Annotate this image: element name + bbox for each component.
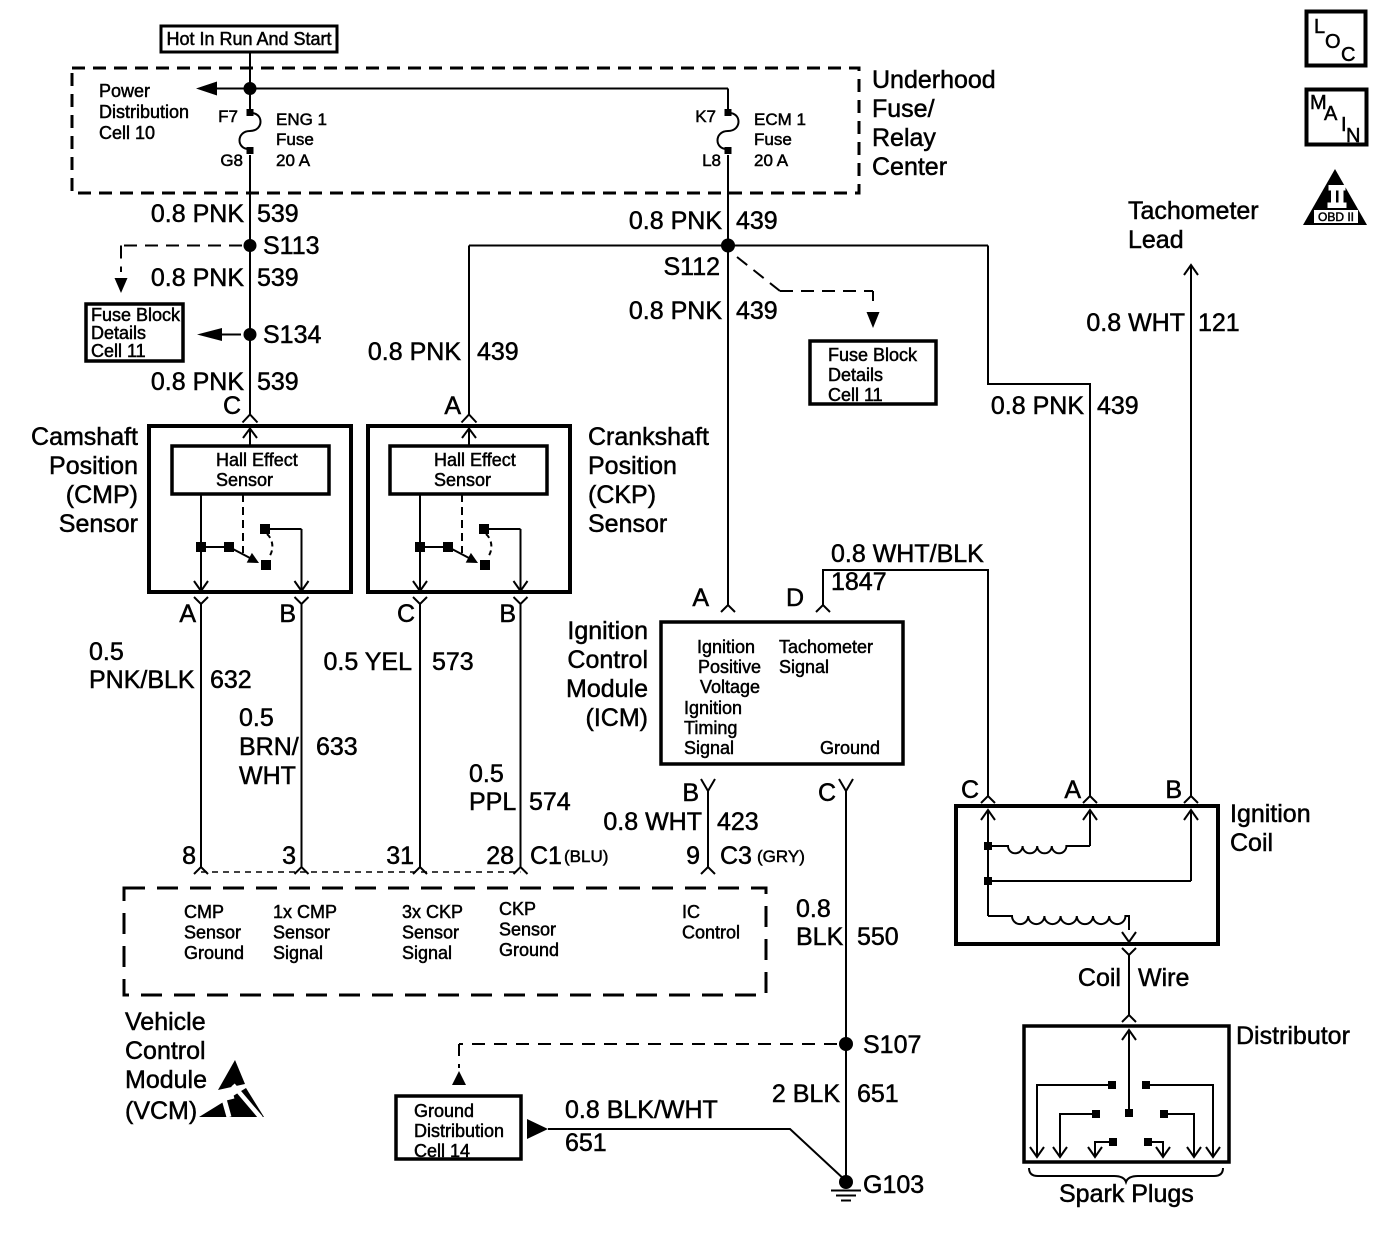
wire: main feed horizontal with left arrow xyxy=(196,82,728,96)
node D (ICM terminal D) xyxy=(786,584,830,612)
junction dot at hot feed xyxy=(244,82,257,95)
svg-text:Cell 10: Cell 10 xyxy=(99,123,155,143)
wire 0.8 PNK 439 (CKP A up to S112) xyxy=(468,246,470,415)
label 0.8 PNK 539 (above S113) xyxy=(151,200,299,228)
svg-text:423: 423 xyxy=(717,808,759,836)
svg-text:B: B xyxy=(499,600,516,628)
node B (ICM terminal B) xyxy=(682,779,715,807)
node B (ignition coil terminal B) xyxy=(1165,776,1198,804)
svg-text:573: 573 xyxy=(432,648,474,676)
label Power Distribution Cell 10 xyxy=(99,81,189,143)
svg-text:632: 632 xyxy=(210,666,252,694)
svg-text:651: 651 xyxy=(565,1129,607,1157)
connector C1 (BLU) xyxy=(530,842,608,870)
svg-text:N: N xyxy=(1346,125,1360,147)
pin 9 xyxy=(686,842,715,874)
node: coil wire output terminal xyxy=(1122,948,1136,955)
pin 8 xyxy=(182,842,208,874)
svg-text:121: 121 xyxy=(1198,309,1240,337)
symbol LOC xyxy=(1307,12,1366,67)
svg-text:Signal: Signal xyxy=(402,943,452,963)
svg-text:(ICM): (ICM) xyxy=(586,704,648,732)
svg-text:Sensor: Sensor xyxy=(184,923,241,943)
svg-text:550: 550 xyxy=(857,923,899,951)
svg-text:S107: S107 xyxy=(863,1031,921,1059)
fuse ENG 1 20 A (F7/G8) xyxy=(218,107,327,170)
svg-text:C: C xyxy=(818,779,836,807)
dashed arrow from S113 to Fuse Block Details xyxy=(115,246,243,294)
svg-text:Sensor: Sensor xyxy=(59,510,138,538)
svg-text:Ignition: Ignition xyxy=(1230,800,1311,828)
svg-text:IC: IC xyxy=(682,902,700,922)
svg-text:Positive: Positive xyxy=(698,657,761,677)
node S107 xyxy=(839,1031,921,1059)
label 2 BLK 651 xyxy=(772,1080,899,1108)
svg-text:C3: C3 xyxy=(720,842,752,870)
svg-text:Sensor: Sensor xyxy=(434,470,491,490)
reference box: Hot In Run And Start xyxy=(161,26,337,52)
svg-text:Fuse Block: Fuse Block xyxy=(91,305,181,325)
svg-text:Ignition: Ignition xyxy=(697,637,755,657)
svg-text:0.8 PNK: 0.8 PNK xyxy=(629,207,722,235)
label 0.8 WHT 121 xyxy=(1086,309,1239,337)
wire 0.8 WHT 121 (tachometer lead to coil B) xyxy=(1184,265,1198,796)
svg-text:Signal: Signal xyxy=(779,657,829,677)
svg-text:CKP: CKP xyxy=(499,899,536,919)
pin 3 xyxy=(282,842,308,874)
svg-text:CMP: CMP xyxy=(184,902,224,922)
node C (CMP connector) xyxy=(223,392,258,423)
rotor contacts to spark plug outputs xyxy=(1108,1081,1116,1089)
pin 31 xyxy=(386,842,427,874)
label 0.5 PPL 574 xyxy=(469,760,571,816)
symbol MAIN xyxy=(1307,90,1367,148)
svg-text:0.8 PNK: 0.8 PNK xyxy=(368,338,461,366)
svg-text:Underhood: Underhood xyxy=(872,66,996,94)
svg-text:Sensor: Sensor xyxy=(216,470,273,490)
svg-text:G8: G8 xyxy=(220,151,243,170)
node A (CKP connector) xyxy=(444,392,476,423)
label Vehicle Control Module (VCM) xyxy=(125,1008,207,1125)
svg-text:0.5: 0.5 xyxy=(89,638,124,666)
svg-text:Ignition: Ignition xyxy=(567,617,648,645)
label 0.8 PNK 439 (above S112) xyxy=(629,207,778,235)
svg-text:C: C xyxy=(397,600,415,628)
svg-text:BRN/: BRN/ xyxy=(239,733,299,761)
svg-text:539: 539 xyxy=(257,368,299,396)
svg-text:Hall Effect: Hall Effect xyxy=(434,450,516,470)
wire 0.5 BRN/WHT 633 (CMP B to VCM pin 3) xyxy=(301,604,303,867)
svg-text:Control: Control xyxy=(567,646,648,674)
svg-text:Distribution: Distribution xyxy=(414,1121,504,1141)
svg-text:Vehicle: Vehicle xyxy=(125,1008,206,1036)
camshaft position sensor CMP box xyxy=(149,426,351,592)
fuse ECM 1 20 A (K7/L8) xyxy=(695,107,806,170)
connector C3 (GRY) xyxy=(720,842,805,870)
svg-text:0.8 BLK/WHT: 0.8 BLK/WHT xyxy=(565,1096,718,1124)
svg-text:A: A xyxy=(179,600,196,628)
svg-text:Spark Plugs: Spark Plugs xyxy=(1059,1180,1194,1208)
svg-text:Timing: Timing xyxy=(684,718,737,738)
svg-text:Power: Power xyxy=(99,81,150,101)
svg-text:574: 574 xyxy=(529,788,571,816)
underhood fuse/relay center dashed box xyxy=(72,68,859,193)
wire 0.8 PNK 439 (S112 to ignition coil A) xyxy=(988,246,1090,797)
label 0.8 PNK 439 (to coil) xyxy=(991,392,1139,420)
svg-text:1x CMP: 1x CMP xyxy=(273,902,337,922)
label Ignition Control Module (ICM) xyxy=(566,617,648,732)
svg-text:Module: Module xyxy=(125,1066,207,1094)
svg-text:Ground: Ground xyxy=(820,738,880,758)
svg-text:Fuse: Fuse xyxy=(276,130,314,149)
svg-text:3: 3 xyxy=(282,842,296,870)
svg-text:Voltage: Voltage xyxy=(700,677,760,697)
dashed connector line C1 xyxy=(201,871,521,873)
wire 0.8 WHT/BLK 1847 (ICM D to ignition coil C) xyxy=(823,570,988,796)
svg-text:D: D xyxy=(786,584,804,612)
label CMP Sensor Ground (VCM pin 8) xyxy=(184,902,244,963)
svg-text:C1: C1 xyxy=(530,842,562,870)
pin 28 xyxy=(486,842,527,874)
svg-text:Ground: Ground xyxy=(184,943,244,963)
wire 0.8 PNK 439 from L8 fuse down through S112 to ICM A xyxy=(727,155,729,605)
node C (ICM terminal C) xyxy=(818,779,853,807)
svg-text:Ground: Ground xyxy=(414,1101,474,1121)
svg-text:0.8 WHT: 0.8 WHT xyxy=(603,808,702,836)
svg-text:Cell 14: Cell 14 xyxy=(414,1141,470,1161)
label 0.8 WHT 423 xyxy=(603,808,758,836)
svg-text:Hall Effect: Hall Effect xyxy=(216,450,298,470)
label IC Control (VCM pin 9) xyxy=(682,902,740,943)
svg-text:B: B xyxy=(1165,776,1182,804)
reference box: Fuse Block Details Cell 11 (right) xyxy=(810,341,936,405)
svg-text:439: 439 xyxy=(477,338,519,366)
node S113 xyxy=(244,232,320,260)
svg-text:Cell 11: Cell 11 xyxy=(828,385,883,405)
svg-text:Ground: Ground xyxy=(499,940,559,960)
svg-text:A: A xyxy=(1064,776,1081,804)
svg-text:PNK/BLK: PNK/BLK xyxy=(89,666,195,694)
svg-text:Lead: Lead xyxy=(1128,226,1184,254)
svg-text:S112: S112 xyxy=(663,253,720,281)
wire 0.5 YEL 573 (CKP C to VCM pin 31) xyxy=(419,604,421,867)
svg-text:Control: Control xyxy=(125,1037,206,1065)
svg-text:C: C xyxy=(223,392,241,420)
svg-text:28: 28 xyxy=(486,842,514,870)
ESD warning symbol xyxy=(199,1060,264,1118)
label Underhood Fuse/Relay Center xyxy=(872,66,996,181)
svg-text:G103: G103 xyxy=(863,1171,924,1199)
svg-text:2 BLK: 2 BLK xyxy=(772,1080,840,1108)
svg-text:O: O xyxy=(1325,31,1341,53)
svg-text:0.8 PNK: 0.8 PNK xyxy=(151,264,244,292)
svg-text:Crankshaft: Crankshaft xyxy=(588,423,709,451)
svg-text:(CMP): (CMP) xyxy=(66,481,138,509)
svg-text:0.8: 0.8 xyxy=(796,895,831,923)
svg-text:8: 8 xyxy=(182,842,196,870)
svg-text:C: C xyxy=(961,776,979,804)
svg-text:S134: S134 xyxy=(263,321,321,349)
svg-text:(BLU): (BLU) xyxy=(564,847,608,866)
crankshaft position sensor CKP box xyxy=(368,426,570,592)
svg-text:633: 633 xyxy=(316,733,358,761)
svg-text:Center: Center xyxy=(872,153,947,181)
svg-text:Fuse: Fuse xyxy=(754,130,792,149)
svg-text:Sensor: Sensor xyxy=(499,920,556,940)
spark plugs brace xyxy=(1029,1168,1223,1182)
label Coil Wire xyxy=(1078,964,1189,992)
node A (CMP pin A) xyxy=(179,597,208,628)
svg-text:20 A: 20 A xyxy=(276,151,311,170)
svg-text:ECM 1: ECM 1 xyxy=(754,110,806,129)
svg-text:0.5: 0.5 xyxy=(239,704,274,732)
ignition coil box xyxy=(956,806,1218,944)
svg-text:Cell 11: Cell 11 xyxy=(91,341,146,361)
svg-text:539: 539 xyxy=(257,200,299,228)
primary winding xyxy=(988,846,1090,853)
dashed arrow from S112 to Fuse Block Details Cell 11 xyxy=(737,257,880,328)
svg-text:Sensor: Sensor xyxy=(273,923,330,943)
svg-text:0.8 PNK: 0.8 PNK xyxy=(629,297,722,325)
svg-text:439: 439 xyxy=(736,297,778,325)
wire 0.5 PPL 574 (CKP B to VCM pin 28) xyxy=(520,604,522,867)
svg-text:Details: Details xyxy=(91,323,146,343)
label 0.5 BRN/WHT 633 xyxy=(239,704,358,790)
svg-text:Signal: Signal xyxy=(684,738,734,758)
label 0.8 PNK 439 (below S112) xyxy=(629,297,778,325)
svg-text:0.5 YEL: 0.5 YEL xyxy=(323,648,412,676)
svg-text:0.8 WHT: 0.8 WHT xyxy=(1086,309,1185,337)
svg-text:B: B xyxy=(279,600,296,628)
label 0.8 BLK/WHT 651 xyxy=(565,1096,718,1157)
svg-text:Coil: Coil xyxy=(1230,829,1273,857)
svg-text:Wire: Wire xyxy=(1138,964,1189,992)
svg-text:PPL: PPL xyxy=(469,788,516,816)
wire: coil wire to distributor xyxy=(1128,955,1130,1015)
svg-text:1847: 1847 xyxy=(831,568,887,596)
svg-text:31: 31 xyxy=(386,842,414,870)
svg-text:F7: F7 xyxy=(218,107,238,126)
svg-text:Relay: Relay xyxy=(872,124,936,152)
svg-text:A: A xyxy=(692,584,709,612)
svg-text:BLK: BLK xyxy=(796,923,844,951)
svg-text:9: 9 xyxy=(686,842,700,870)
svg-text:(CKP): (CKP) xyxy=(588,481,656,509)
svg-text:Control: Control xyxy=(682,923,740,943)
secondary winding xyxy=(988,916,1129,930)
svg-text:439: 439 xyxy=(1097,392,1139,420)
svg-text:Sensor: Sensor xyxy=(588,510,667,538)
svg-text:(GRY): (GRY) xyxy=(757,847,805,866)
label CKP Sensor Ground (VCM pin 28) xyxy=(499,899,559,960)
svg-text:Sensor: Sensor xyxy=(402,923,459,943)
svg-text:L: L xyxy=(1314,16,1325,38)
label 0.8 BLK 550 xyxy=(796,895,899,951)
label 3x CKP Sensor Signal (VCM pin 31) xyxy=(402,902,463,963)
svg-text:Hot In Run And Start: Hot In Run And Start xyxy=(166,29,331,49)
svg-text:0.5: 0.5 xyxy=(469,760,504,788)
label Ignition Coil xyxy=(1230,800,1311,857)
wire 0.8 WHT 423 (ICM B to VCM pin 9) xyxy=(707,791,709,867)
svg-text:S113: S113 xyxy=(263,232,320,260)
label Tachometer Lead xyxy=(1128,197,1259,254)
ignition control module ICM box xyxy=(661,622,903,764)
label 0.8 WHT/BLK 1847 xyxy=(831,540,984,596)
svg-text:0.8 WHT/BLK: 0.8 WHT/BLK xyxy=(831,540,984,568)
node: distributor input terminal xyxy=(1122,1015,1136,1022)
svg-text:Coil: Coil xyxy=(1078,964,1121,992)
label 1x CMP Sensor Signal (VCM pin 3) xyxy=(273,902,337,963)
svg-text:ENG 1: ENG 1 xyxy=(276,110,327,129)
svg-text:Position: Position xyxy=(49,452,138,480)
wire: hot feed from Hot In Run And Start box xyxy=(249,52,251,109)
label 0.8 PNK 439 (CKP feed) xyxy=(368,338,519,366)
vehicle control module VCM dashed box xyxy=(124,888,766,995)
svg-text:L8: L8 xyxy=(702,151,721,170)
node C (CKP pin C) xyxy=(397,597,427,628)
svg-text:(VCM): (VCM) xyxy=(125,1097,197,1125)
symbol OBD II xyxy=(1303,169,1367,225)
svg-text:Tachometer: Tachometer xyxy=(779,637,873,657)
svg-text:Ignition: Ignition xyxy=(684,698,742,718)
svg-text:651: 651 xyxy=(857,1080,899,1108)
reference box: Ground Distribution Cell 14 xyxy=(396,1096,521,1161)
svg-text:0.8 PNK: 0.8 PNK xyxy=(991,392,1084,420)
node S134 with arrow to fuse block details xyxy=(197,321,321,349)
svg-text:439: 439 xyxy=(736,207,778,235)
wire to terminal B inside coil xyxy=(988,880,1191,882)
svg-text:OBD II: OBD II xyxy=(1318,210,1354,224)
svg-text:A: A xyxy=(444,392,461,420)
dashed arrow from S107 to Ground Distribution xyxy=(452,1044,837,1085)
svg-text:Fuse/: Fuse/ xyxy=(872,95,935,123)
svg-text:0.8 PNK: 0.8 PNK xyxy=(151,200,244,228)
svg-text:Signal: Signal xyxy=(273,943,323,963)
svg-text:Tachometer: Tachometer xyxy=(1128,197,1259,225)
svg-text:Distributor: Distributor xyxy=(1236,1022,1350,1050)
svg-text:B: B xyxy=(682,779,699,807)
svg-text:539: 539 xyxy=(257,264,299,292)
ground G103 xyxy=(831,1171,924,1201)
label Camshaft Position (CMP) Sensor xyxy=(31,423,138,538)
node S112 xyxy=(663,239,735,282)
svg-text:20 A: 20 A xyxy=(754,151,789,170)
label 0.5 YEL 573 xyxy=(323,648,473,676)
label 0.5 PNK/BLK 632 xyxy=(89,638,252,694)
node A (ignition coil terminal A) xyxy=(1064,776,1097,804)
svg-text:C: C xyxy=(1341,44,1355,66)
node A (ICM terminal A) xyxy=(692,584,735,612)
svg-text:K7: K7 xyxy=(695,107,716,126)
distributor box xyxy=(1024,1026,1229,1162)
node C (ignition coil terminal C) xyxy=(961,776,995,804)
svg-text:Module: Module xyxy=(566,675,648,703)
svg-text:Camshaft: Camshaft xyxy=(31,423,138,451)
wire 0.5 PNK/BLK 632 (CMP A to VCM pin 8) xyxy=(200,604,202,867)
svg-text:A: A xyxy=(1324,103,1338,125)
svg-text:3x CKP: 3x CKP xyxy=(402,902,463,922)
wire: K7 fuse drop xyxy=(727,89,729,110)
wire 0.8 BLK/WHT 651 (ground distribution to G103) xyxy=(527,1119,846,1181)
node B (CMP pin B) xyxy=(279,597,308,628)
label 0.8 PNK 539 (below S134) xyxy=(151,368,299,396)
svg-text:Fuse Block: Fuse Block xyxy=(828,345,918,365)
wire 0.8 PNK 539 from G8 to CMP sensor xyxy=(249,155,251,414)
svg-text:WHT: WHT xyxy=(239,762,296,790)
svg-text:Distribution: Distribution xyxy=(99,102,189,122)
reference box: Fuse Block Details Cell 11 xyxy=(86,304,183,361)
wire 0.8 BLK 550 (ICM C down to S107) xyxy=(845,791,847,1182)
label 0.8 PNK 539 (between S113 and S134) xyxy=(151,264,299,292)
svg-text:Position: Position xyxy=(588,452,677,480)
node B (CKP pin B) xyxy=(499,597,527,628)
svg-text:Details: Details xyxy=(828,365,883,385)
wire: S112 horizontal bus xyxy=(469,245,988,247)
label Crankshaft Position (CKP) Sensor xyxy=(588,423,709,538)
